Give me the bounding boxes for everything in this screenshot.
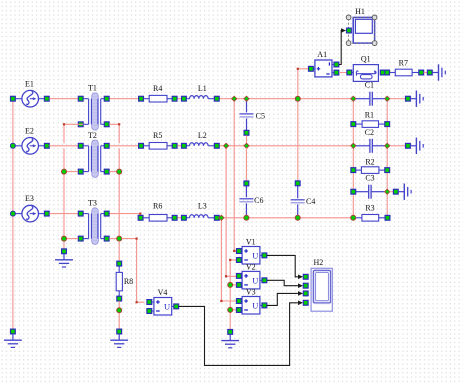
node E2 left junction [10, 143, 15, 148]
wire A1 input column [297, 68, 311, 181]
svg-text:L3: L3 [198, 201, 207, 210]
svg-text:V3: V3 [246, 287, 256, 296]
pin E1 right [44, 96, 49, 101]
node row C x221 [219, 215, 224, 220]
arrow H2 in2 [298, 283, 303, 288]
wire L2 to right, row B [219, 145, 351, 147]
svg-text:V4: V4 [158, 288, 168, 297]
pin ground R7 [427, 70, 432, 75]
display H2 [311, 258, 332, 311]
pins R4 [139, 96, 177, 101]
pin ground row B [406, 143, 411, 148]
svg-text:U: U [252, 251, 258, 261]
wire C5 to row B [246, 135, 248, 145]
svg-text:R4: R4 [153, 84, 162, 93]
node T3 bottom left [62, 236, 67, 241]
resistor R5 [144, 131, 173, 149]
pins V4 [147, 300, 179, 314]
pins R2 [351, 168, 390, 173]
pin C4 top [295, 181, 300, 186]
pin R8 bottom [117, 296, 122, 301]
pin C5 bottom [244, 130, 249, 135]
svg-text:E1: E1 [25, 79, 34, 88]
wire V2 out to H2 in2 [267, 280, 298, 285]
breaker Q1 [352, 54, 379, 81]
wire L1 to node right, row A [219, 98, 351, 100]
svg-text:T3: T3 [88, 199, 97, 208]
svg-text:R3: R3 [365, 203, 374, 212]
capacitor C3 [356, 185, 385, 199]
svg-text:L2: L2 [198, 131, 207, 140]
wire E1 to T1 [49, 98, 78, 100]
wire R6-L3 link [177, 217, 181, 219]
pin R8 top [117, 261, 122, 266]
node R3 left [351, 215, 356, 220]
node C4 bottom [295, 215, 300, 220]
svg-text:U: U [164, 302, 170, 312]
pin A1 out bottom [334, 70, 339, 75]
node row B x226 [224, 143, 229, 148]
arrow into H1 [341, 28, 346, 33]
wire V4 out to H2 in4 [179, 303, 298, 366]
arrow H2 in1 [298, 275, 303, 280]
svg-text:R7: R7 [399, 59, 408, 68]
wire L3 to right, row C [219, 217, 351, 219]
node E3 left junction [10, 211, 15, 216]
resistor R4 [144, 84, 173, 102]
voltage source E2 [15, 126, 45, 154]
node C5 top [244, 96, 249, 101]
pin A1 in [309, 66, 314, 71]
voltage source E3 [15, 194, 45, 222]
voltmeter V1 [238, 237, 265, 264]
svg-text:V1: V1 [246, 237, 256, 246]
ground neutral [221, 335, 239, 348]
ground row B [410, 138, 423, 154]
ground x119 [110, 334, 128, 347]
wire T2 bottom left [67, 171, 79, 173]
capacitor C1 [356, 81, 385, 106]
node C6 bottom [244, 215, 249, 220]
node C2 right [385, 143, 390, 148]
wire R5-L2 link [177, 145, 181, 147]
pin Q1 right [380, 70, 385, 75]
wire left RC column [352, 99, 354, 218]
transformer T2 [81, 131, 107, 178]
svg-text:R2: R2 [365, 158, 374, 167]
wire T1 to R4 [109, 98, 138, 100]
inductor L2 [186, 131, 214, 146]
pin R7 left [385, 70, 390, 75]
pin E1 left [11, 96, 16, 101]
pins L1 [182, 96, 220, 101]
wire T3 bottom left [67, 238, 79, 240]
pin E2 right [44, 143, 49, 148]
svg-text:C1: C1 [365, 81, 374, 90]
svg-text:A1: A1 [317, 50, 327, 59]
pins R6 [138, 215, 177, 220]
node row A x234 [232, 96, 237, 101]
svg-text:C3: C3 [365, 174, 374, 183]
pin H1 [347, 28, 352, 33]
node V2- junction [228, 282, 233, 287]
wire A1 to Q1 [339, 72, 347, 74]
pins T2 [78, 143, 109, 174]
pins R5 [139, 143, 177, 148]
wire R4-L1 link [177, 98, 181, 100]
pin C6 top [244, 181, 249, 186]
pins L3 [182, 215, 220, 220]
capacitor C5 [240, 99, 265, 131]
svg-text:E3: E3 [25, 194, 34, 203]
svg-text:V2: V2 [246, 262, 256, 271]
pins H2 [303, 274, 308, 305]
meter A1 [313, 50, 334, 77]
wire T3 bottom right [109, 238, 116, 240]
resistor R7 [390, 59, 419, 76]
pin C3 left [351, 189, 356, 194]
transformer T1 [81, 84, 107, 130]
resistor R3 [356, 203, 385, 221]
wire V2- link [233, 284, 237, 286]
wire row C tap to V3+ [220, 218, 236, 302]
svg-text:C4: C4 [306, 197, 315, 206]
wire C3 to ground [390, 191, 394, 193]
capacitor C6 [239, 186, 263, 218]
voltmeter V2 [238, 262, 265, 289]
transformer T3 [81, 199, 107, 245]
voltage source E1 [15, 79, 45, 107]
wire A1 to H1 [339, 31, 344, 65]
resistor R8 [116, 266, 133, 296]
capacitor C2 [356, 139, 385, 153]
node C1 left [351, 96, 356, 101]
wire right RC column [386, 99, 388, 216]
ground row A [410, 91, 423, 107]
pins R1 [351, 122, 390, 127]
wire V3 out to H2 in3 [267, 293, 298, 305]
svg-text:R8: R8 [124, 277, 133, 286]
node C3 right [385, 189, 390, 194]
wire T2 bottom right [109, 171, 116, 173]
resistor R6 [143, 201, 172, 221]
pin Q1 left [347, 70, 352, 75]
wire x64 bus T2-T3 [63, 148, 65, 249]
svg-text:R5: R5 [153, 131, 162, 140]
pins V2 [237, 274, 267, 288]
node R8 bottom junction [117, 308, 122, 313]
arrow H2 in4 [298, 301, 303, 306]
wire R8 to node V4- [118, 301, 120, 329]
pin ground C3 [393, 189, 398, 194]
wire V4+ tap [122, 238, 145, 304]
selection handles H1 [346, 15, 377, 45]
ground left bus [4, 334, 22, 347]
wire x119 bus T2-T3 [118, 148, 120, 238]
wire neutral V1- chain [229, 259, 236, 332]
svg-text:C6: C6 [254, 196, 263, 205]
node C2 left [351, 143, 356, 148]
svg-text:H1: H1 [355, 7, 365, 16]
svg-text:R1: R1 [365, 110, 374, 119]
pins V1 [237, 249, 267, 263]
node C1 right [385, 96, 390, 101]
wire V1 out to H2 in1 [267, 255, 298, 276]
arrow H2 in3 [298, 291, 303, 296]
wire V3- link [233, 309, 237, 311]
inductor L3 [186, 201, 214, 217]
wire row B to C6 [245, 148, 247, 181]
svg-text:C5: C5 [256, 112, 265, 121]
pins T3 [78, 211, 109, 241]
resistor R1 [356, 110, 385, 137]
svg-text:U: U [252, 301, 258, 311]
pin R7 right [419, 70, 424, 75]
pins T1 [78, 96, 109, 126]
wire E2 to T2 [49, 145, 78, 147]
wire T3 node to R8 [118, 241, 120, 261]
svg-text:Q1: Q1 [361, 54, 371, 63]
ground R7 [432, 64, 445, 80]
svg-text:H2: H2 [314, 258, 324, 267]
wire T3 to R6 with jog [109, 213, 141, 218]
pins L2 [182, 143, 220, 148]
pin left bus bottom [11, 329, 16, 334]
wire E3 to T3 [49, 213, 78, 215]
wire row A caps to ground pin [390, 98, 406, 100]
svg-text:L1: L1 [198, 84, 207, 93]
svg-text:T2: T2 [88, 131, 97, 140]
pin ground T3 left [62, 249, 67, 254]
ground under T3 [55, 254, 73, 267]
voltmeter V4 [149, 288, 176, 315]
wire row B tap to V2+ [225, 146, 236, 278]
capacitor C4 [291, 186, 316, 218]
svg-text:E2: E2 [25, 126, 34, 135]
svg-text:T1: T1 [88, 84, 97, 93]
node C5 bottom [244, 143, 249, 148]
node T2 bottom right [117, 169, 122, 174]
pins V3 [237, 299, 267, 313]
pin ground neutral [228, 330, 233, 335]
wire R7 to ground [424, 72, 428, 74]
pin ground row A [406, 96, 411, 101]
wire T2 to R5 [109, 145, 138, 147]
display H1 [349, 7, 375, 43]
node V3- junction [228, 307, 233, 312]
wire left neutral bus [12, 99, 14, 329]
wire T1 bottom to buses [63, 123, 120, 143]
pin R3 right [385, 215, 390, 220]
pin E3 right [44, 211, 49, 216]
resistor R2 [356, 158, 385, 183]
wire row A tap to V1+ [233, 99, 236, 252]
svg-text:C2: C2 [365, 128, 374, 137]
svg-text:R6: R6 [153, 201, 162, 210]
inductor L1 [186, 84, 214, 99]
voltmeter V3 [238, 287, 265, 314]
wire row B cap to ground pin [390, 145, 406, 147]
node T3 bottom right [117, 236, 122, 241]
svg-text:U: U [252, 276, 258, 286]
node C4 top row A [295, 96, 300, 101]
ground C3 row [398, 184, 411, 200]
pin ground x119 [117, 329, 122, 334]
node T2 bottom left [62, 169, 67, 174]
pin A1 out top [334, 62, 339, 67]
